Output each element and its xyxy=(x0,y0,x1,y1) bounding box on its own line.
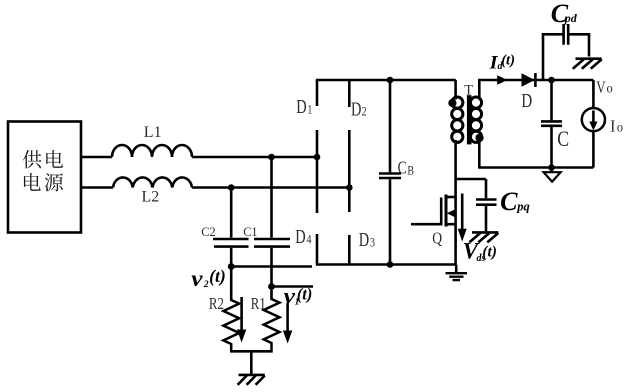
wire L1 to bridge xyxy=(192,156,317,159)
capacitor C1 branch wires xyxy=(270,157,273,300)
svg-text:D: D xyxy=(351,97,361,120)
node C bottom xyxy=(548,164,555,171)
svg-text:o: o xyxy=(617,119,624,135)
ground (bars) under Q xyxy=(455,265,458,273)
svg-text:v: v xyxy=(284,283,296,309)
inductor L2 xyxy=(113,177,192,187)
svg-text:L2: L2 xyxy=(142,188,160,205)
text 源 xyxy=(45,173,64,191)
svg-text:D: D xyxy=(359,228,369,251)
svg-text:R2: R2 xyxy=(209,296,224,314)
svg-text:I: I xyxy=(610,118,615,136)
capacitor CB plates xyxy=(379,174,401,179)
bottom bus wire xyxy=(316,263,457,266)
node C2/L2 xyxy=(228,184,235,191)
inductor L1 xyxy=(112,145,192,157)
wire L2 to bridge xyxy=(192,186,349,189)
node CB top xyxy=(387,77,394,84)
polarity dot secondary xyxy=(475,134,483,142)
arrow Vds(t) xyxy=(461,194,464,231)
svg-text:(t): (t) xyxy=(501,53,515,69)
wire secondary top to corner xyxy=(478,79,593,82)
svg-text:D: D xyxy=(521,89,532,112)
node CB bottom xyxy=(387,261,394,268)
arrow v2(t) xyxy=(240,297,243,331)
resistor R2 xyxy=(223,300,239,351)
capacitor C1 plates xyxy=(254,239,290,247)
svg-text:2: 2 xyxy=(203,279,209,290)
capacitor Cpd branch xyxy=(543,34,589,80)
transformer secondary winding (loops) xyxy=(470,97,481,108)
current source Io branch bottom xyxy=(592,131,595,167)
transformer secondary bottom drop xyxy=(478,140,481,168)
svg-text:B: B xyxy=(407,165,414,178)
capacitor C plates xyxy=(541,121,562,125)
current source Io branch top xyxy=(592,80,595,108)
capacitor C branch wires xyxy=(550,80,553,168)
power source box 供电电源 xyxy=(8,122,81,233)
transformer primary wire/trunk xyxy=(454,80,457,265)
transistor Q channel bar xyxy=(445,195,448,227)
svg-text:o: o xyxy=(607,80,613,96)
svg-text:4: 4 xyxy=(307,233,312,246)
wire box to L2 xyxy=(81,186,113,189)
svg-text:(t): (t) xyxy=(209,266,226,286)
transformer secondary top riser xyxy=(478,79,481,100)
svg-text:(t): (t) xyxy=(482,244,497,261)
wire drain node to Cpq xyxy=(456,178,486,181)
current source arrow xyxy=(592,111,595,123)
svg-text:1: 1 xyxy=(307,104,312,117)
wire box to L1 xyxy=(81,156,112,159)
transistor Q source stub xyxy=(446,223,456,226)
capacitor Cpq branch wires xyxy=(485,179,488,231)
transistor Q gate bar xyxy=(440,198,443,226)
wire resistor bottoms xyxy=(230,350,273,353)
wire v2 node xyxy=(231,265,312,268)
ground (hollow triangle) under C xyxy=(544,172,561,182)
wire v1 node xyxy=(272,285,314,288)
transistor Q body arrow xyxy=(450,212,456,215)
svg-text:D: D xyxy=(295,225,305,248)
ground (hatched) for Cpq xyxy=(469,232,498,242)
svg-text:3: 3 xyxy=(370,236,375,249)
svg-text:C: C xyxy=(557,127,569,151)
svg-text:L1: L1 xyxy=(144,124,162,141)
current source Io circle xyxy=(582,108,605,131)
svg-text:2: 2 xyxy=(362,106,367,119)
capacitor C2 plates xyxy=(213,239,249,247)
arrow v1(t) xyxy=(286,303,289,332)
svg-text:Q: Q xyxy=(432,229,442,248)
svg-text:V: V xyxy=(596,79,605,97)
ground (earth) bottom-left xyxy=(238,375,265,385)
svg-text:T: T xyxy=(464,82,473,98)
svg-text:(t): (t) xyxy=(297,285,313,304)
diode D2 branch xyxy=(348,80,351,212)
svg-text:C2: C2 xyxy=(201,225,215,239)
svg-text:pd: pd xyxy=(564,11,578,25)
diode D xyxy=(522,73,535,86)
capacitor C2 branch wires xyxy=(230,188,233,302)
current arrow Id xyxy=(497,75,507,85)
capacitor Cpd plates xyxy=(564,24,569,45)
text 供 xyxy=(23,150,42,168)
node C1/L1 xyxy=(268,154,275,161)
svg-text:C1: C1 xyxy=(243,225,257,239)
transistor Q drain stub xyxy=(446,196,456,199)
node v2 xyxy=(228,263,235,270)
text 电 (line2) xyxy=(24,173,41,191)
transformer core xyxy=(467,95,472,144)
resistor R1 xyxy=(264,299,280,351)
wire output bottom xyxy=(478,166,593,169)
svg-text:C: C xyxy=(500,187,518,216)
node v1 xyxy=(268,283,275,290)
node L2/bridge xyxy=(346,184,353,191)
text 电 (line1) xyxy=(46,150,63,168)
svg-text:C: C xyxy=(398,159,407,178)
svg-text:D: D xyxy=(296,95,306,118)
transformer primary winding (loops) xyxy=(452,97,463,108)
capacitor CB branch wires xyxy=(389,80,392,265)
transistor Q gate wire xyxy=(411,223,441,226)
capacitor Cpq plates xyxy=(476,200,497,205)
polarity dot primary xyxy=(448,99,456,107)
diode D3 branch xyxy=(348,235,351,264)
svg-text:R1: R1 xyxy=(251,296,266,314)
node L1/bridge xyxy=(314,154,321,161)
svg-text:pq: pq xyxy=(516,200,530,214)
ground (hatched) for Cpd xyxy=(573,59,602,69)
top bus wire xyxy=(316,79,456,82)
diode D4 branch xyxy=(316,234,319,264)
output ground stub xyxy=(550,168,553,173)
diode D1 branch xyxy=(316,80,319,213)
svg-text:v: v xyxy=(191,266,203,292)
node C top xyxy=(548,77,555,84)
wire to ground stub xyxy=(250,351,253,374)
